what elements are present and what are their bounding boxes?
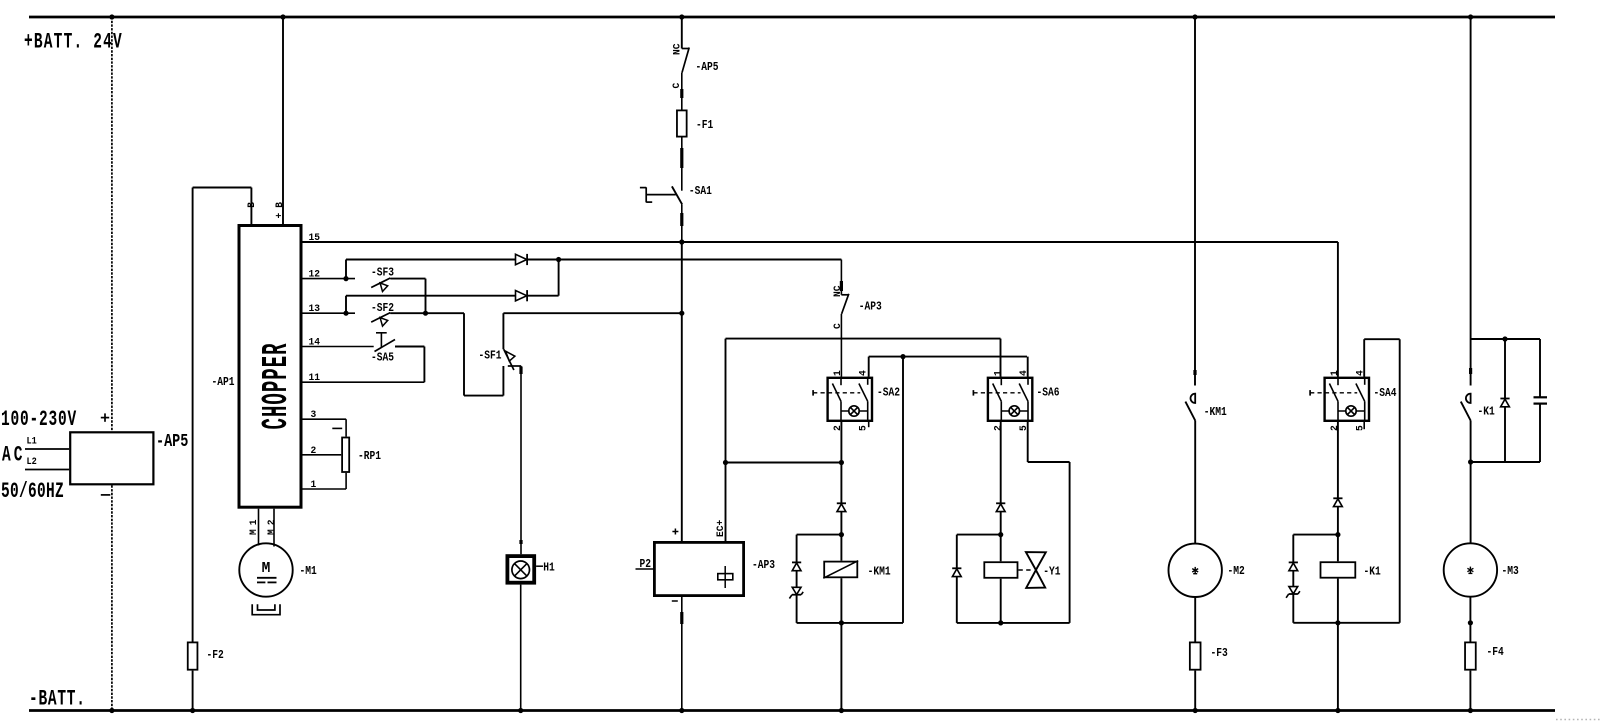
wire KM1 branch to bus bbox=[840, 623, 842, 711]
wire L1 bbox=[25, 448, 69, 450]
switch SF1 blade bbox=[504, 349, 514, 370]
svg-text:-AP3: -AP3 bbox=[752, 559, 775, 572]
label -H1 bbox=[536, 565, 543, 567]
chopper pin 2 wire to RP1 wiper bbox=[303, 454, 342, 456]
wire line A down to AP3 contact bbox=[840, 260, 842, 295]
junction dot rail bbox=[839, 620, 844, 625]
svg-text:-Y1: -Y1 bbox=[1043, 566, 1060, 579]
switch SF2 right terminal bbox=[390, 312, 464, 314]
plus mark at P2 bbox=[672, 531, 678, 533]
svg-text:+B: +B bbox=[274, 197, 285, 219]
wire H1 to bus bbox=[520, 585, 522, 711]
zener K1 suppressor bbox=[1289, 587, 1298, 594]
svg-text:-M1: -M1 bbox=[300, 565, 317, 578]
svg-text:-AP1: -AP1 bbox=[212, 376, 235, 389]
top bus +BATT 24V bbox=[29, 16, 1555, 19]
relay coil K1 bbox=[1321, 562, 1356, 578]
svg-text:-SF1: -SF1 bbox=[479, 350, 502, 363]
junction dot freewheel riser bbox=[900, 354, 905, 359]
svg-text:-F4: -F4 bbox=[1487, 646, 1505, 659]
svg-text:3: 3 bbox=[311, 409, 317, 420]
wire SF1 top to center node bbox=[503, 312, 681, 314]
junction dot EC+/aux wire bbox=[723, 460, 728, 465]
junction dot bbox=[109, 14, 114, 19]
switch SF3 blade bbox=[371, 278, 390, 288]
junction dot bbox=[109, 708, 114, 713]
switch SA2 pole 4-5 bbox=[867, 377, 869, 385]
junction dot pin12 bbox=[343, 276, 348, 281]
junction dot Y1 branch bbox=[998, 532, 1003, 537]
svg-text:2: 2 bbox=[992, 425, 1003, 431]
snubber diode branch bbox=[1504, 339, 1506, 399]
suppressor branch wire K1 bbox=[1293, 534, 1338, 536]
contact K1 (NO) bbox=[1466, 394, 1471, 403]
svg-text:M: M bbox=[262, 561, 271, 577]
Y1 rail bbox=[957, 622, 1070, 624]
page corner dotted mark bbox=[1556, 719, 1600, 721]
riser KM1 rail to pin4 wire bbox=[902, 357, 904, 623]
wire SA2 pin2 down bbox=[840, 422, 842, 503]
fuse F2 bbox=[188, 642, 198, 669]
svg-text:-SA5: -SA5 bbox=[371, 352, 394, 365]
wire F2 to bus bbox=[192, 671, 194, 711]
svg-text:-AP5: -AP5 bbox=[156, 431, 188, 451]
diode KM1 suppressor bbox=[792, 561, 801, 563]
junction dot on SA2 pin2 wire bbox=[839, 460, 844, 465]
switch SA4 pole 1-2 bbox=[1337, 377, 1339, 386]
svg-text:L1: L1 bbox=[27, 435, 38, 447]
chassis ground below M1 bbox=[252, 604, 280, 614]
junction dot pin13 bbox=[343, 311, 348, 316]
snubber bottom rail bbox=[1471, 461, 1540, 463]
chopper pin 15 wire bbox=[303, 241, 1338, 243]
svg-text:-KM1: -KM1 bbox=[868, 566, 891, 579]
svg-text:-SA6: -SA6 bbox=[1037, 387, 1060, 400]
svg-text:-M3: -M3 bbox=[1502, 565, 1519, 578]
svg-text:NC: NC bbox=[832, 285, 843, 297]
junction dot pin15/center bbox=[679, 239, 684, 244]
wire M3 branch from bus bbox=[1470, 17, 1472, 386]
wire battery - dashed below AP5 bbox=[111, 485, 113, 710]
svg-text:-M2: -M2 bbox=[1228, 565, 1245, 578]
potentiometer RP1 bbox=[342, 438, 349, 473]
riser pin13 to diode line B bbox=[345, 296, 347, 314]
junction dot KM1 branch bbox=[839, 532, 844, 537]
svg-text:+BATT. 24V: +BATT. 24V bbox=[24, 29, 123, 55]
svg-text:-AP3: -AP3 bbox=[859, 301, 882, 314]
motor M1 circle bbox=[239, 543, 292, 596]
wire F3 to bus bbox=[1194, 671, 1196, 711]
svg-text:1: 1 bbox=[311, 479, 317, 490]
switch SA4 box bbox=[1325, 378, 1369, 421]
fuse F3 bbox=[1190, 642, 1201, 669]
switch SA6 actuator T link bbox=[972, 390, 974, 396]
chopper pin 12 wire bbox=[303, 278, 356, 280]
svg-text:1: 1 bbox=[992, 370, 1003, 376]
junction dot bbox=[280, 14, 285, 19]
switch SF2 blade bbox=[371, 313, 390, 323]
riser line B to line A bbox=[558, 260, 560, 296]
wire AP3 contact to SA2 pin1 bbox=[840, 314, 842, 377]
switch SA6 box bbox=[988, 378, 1032, 421]
switch SA2 lamp bbox=[849, 406, 859, 416]
svg-text:-K1: -K1 bbox=[1478, 406, 1495, 419]
switch SA5 right terminal to pin 11 bbox=[395, 346, 424, 348]
svg-text:2: 2 bbox=[311, 445, 317, 456]
wire U-loop to SF1 lower terminal bbox=[463, 313, 465, 395]
diode above Y1 coil bbox=[996, 502, 1005, 504]
minus mark near RP1 bbox=[332, 427, 342, 429]
snubber top rail bbox=[1471, 338, 1540, 340]
svg-text:-SA1: -SA1 bbox=[689, 185, 712, 198]
svg-text:-BATT.: -BATT. bbox=[29, 686, 86, 712]
motor M1 DC mark bbox=[257, 577, 277, 579]
lamp H1 box bbox=[507, 556, 534, 583]
wire to fuse F1 with cable dash bbox=[681, 73, 683, 110]
wire K1 branch to bus bbox=[1337, 623, 1339, 711]
minus mark below P2 bbox=[672, 600, 678, 602]
switch SF1 lower bar bbox=[508, 365, 521, 367]
svg-text:-F3: -F3 bbox=[1211, 647, 1228, 660]
svg-text:1: 1 bbox=[1329, 370, 1340, 376]
junction dot K1 rail bbox=[1335, 620, 1340, 625]
switch SA2 actuator T link bbox=[812, 390, 814, 396]
junction dot Y1 rail bbox=[998, 620, 1003, 625]
suppressor branch wire bbox=[797, 534, 842, 536]
charger AP5 box bbox=[70, 432, 153, 484]
wire K1 contact to M3 bbox=[1470, 421, 1472, 544]
wire battery + dashed drop at x=112 bbox=[111, 17, 113, 431]
switch SA2 pole 1-2 bbox=[840, 377, 842, 386]
svg-text:-SA4: -SA4 bbox=[1374, 387, 1398, 400]
wire SA6 pin5 path bbox=[1027, 422, 1029, 462]
aux wire EC+ to KM1 branch bbox=[726, 462, 842, 464]
plus mark bbox=[101, 417, 109, 419]
svg-text:L2: L2 bbox=[27, 455, 38, 467]
chopper pin 14 wire bbox=[303, 346, 374, 348]
wire SA1 to line15 node bbox=[681, 204, 683, 242]
svg-text:CHOPPER: CHOPPER bbox=[256, 342, 297, 429]
chopper pin 1 wire bbox=[303, 488, 347, 490]
wire EC+ horizontal to SA6 bbox=[726, 338, 1001, 340]
svg-text:H1: H1 bbox=[543, 562, 555, 575]
svg-text:M1: M1 bbox=[248, 515, 259, 535]
center wire from bus to AP5 contact bbox=[681, 17, 683, 49]
svg-text:M2: M2 bbox=[266, 515, 277, 535]
fuse F1 bbox=[677, 110, 687, 136]
switch SF1 upper terminal bbox=[502, 313, 504, 349]
diode above K1 coil bbox=[1333, 497, 1342, 499]
chopper AP1 box bbox=[239, 226, 301, 508]
wire -B from chopper to F2 bbox=[250, 188, 252, 225]
snubber capacitor branch bbox=[1539, 339, 1541, 397]
chopper pin 3 wire bbox=[303, 418, 347, 420]
aux contact of AP3 charger (NC) bbox=[841, 294, 848, 296]
switch SA4 pole 4-5 bbox=[1364, 377, 1366, 385]
switch SA1 blade bbox=[672, 186, 682, 204]
wire EC+ riser bbox=[725, 339, 727, 541]
chopper M1 pin wire bbox=[258, 509, 260, 546]
wire SA4 pin2 down bbox=[1337, 422, 1339, 498]
wire L2 bbox=[25, 469, 69, 471]
wire KM1 coil to rail bbox=[840, 578, 842, 623]
diode above KM1 coil bbox=[837, 502, 846, 504]
junction dot node P2+ bbox=[679, 311, 684, 316]
diode Y1 suppressor bbox=[952, 567, 961, 569]
power supply P2/AP3 box bbox=[654, 542, 743, 595]
suppressor branch wire Y1 bbox=[957, 534, 1001, 536]
bottom bus -BATT bbox=[29, 709, 1555, 712]
KM1 freewheel rail bbox=[797, 622, 903, 624]
internal symbol in AP3 box bbox=[724, 566, 726, 588]
switch SA6 lamp bbox=[1009, 406, 1019, 416]
motor M2 bbox=[1169, 544, 1222, 597]
wire Y1 coil to rail bbox=[1000, 579, 1002, 623]
svg-text:NC: NC bbox=[671, 43, 682, 55]
switch SA5 manual T actuator bbox=[376, 332, 387, 334]
svg-text:-AP5: -AP5 bbox=[696, 61, 719, 74]
junction dot line A bbox=[556, 257, 561, 262]
junction dot snubber bottom bbox=[1468, 459, 1473, 464]
switch SA5 blade bbox=[375, 340, 396, 352]
minus mark bbox=[101, 494, 111, 496]
lamp H1 symbol bbox=[512, 561, 530, 579]
wire SF1 to lamp H1 bbox=[520, 366, 522, 554]
wire KM1 contact to M2 bbox=[1194, 421, 1196, 544]
riser pin12 to diode line A bbox=[345, 260, 347, 279]
svg-text:-KM1: -KM1 bbox=[1204, 406, 1227, 419]
switch SF3 right terminal bbox=[390, 278, 425, 280]
svg-text:12: 12 bbox=[309, 268, 321, 279]
svg-text:1: 1 bbox=[832, 370, 843, 376]
wire SA2 pin5 stub bbox=[868, 422, 870, 427]
chopper pin 11 wire bbox=[303, 381, 425, 383]
junction dot K1 branch bbox=[1335, 532, 1340, 537]
contactor coil KM1 bbox=[824, 562, 857, 578]
svg-text:11: 11 bbox=[309, 372, 321, 383]
svg-text:-SA2: -SA2 bbox=[877, 387, 900, 400]
wire node to P2 + pin bbox=[681, 313, 683, 541]
diode line B bbox=[346, 295, 516, 297]
svg-text:-F1: -F1 bbox=[696, 119, 713, 132]
switch SA6 pole 1-2 bbox=[1000, 377, 1002, 386]
junction dot SF3 drop bbox=[423, 311, 428, 316]
switch SA4 actuator T link bbox=[1309, 390, 1311, 396]
wire P2 - to bus bbox=[681, 597, 683, 711]
chopper M2 pin wire bbox=[273, 509, 275, 547]
switch SA4 lamp bbox=[1346, 406, 1356, 416]
capacitor C1 bbox=[1534, 396, 1548, 398]
solenoid valve symbol Y1 bbox=[1026, 552, 1046, 570]
valve coil Y1 bbox=[984, 562, 1017, 578]
svg-text:AC: AC bbox=[2, 442, 25, 468]
junction dot snubber bbox=[1502, 336, 1507, 341]
wire M3 to fuse F4 bbox=[1469, 597, 1471, 642]
wire K1 coil to rail bbox=[1337, 579, 1339, 623]
junction dot below M3 bbox=[1468, 620, 1473, 625]
junction dot bbox=[190, 708, 195, 713]
svg-text:5: 5 bbox=[858, 425, 869, 431]
K1 rail bbox=[1293, 622, 1399, 624]
wire +B from bus to chopper bbox=[282, 17, 284, 224]
switch SA2 box bbox=[828, 378, 872, 421]
svg-text:EC+: EC+ bbox=[715, 520, 726, 537]
switch SA6 pole 4-5 bbox=[1027, 377, 1029, 385]
svg-text:13: 13 bbox=[309, 303, 321, 314]
wire line15 node to P2+ node bbox=[681, 242, 683, 313]
zener KM1 suppressor bbox=[792, 587, 801, 594]
svg-text:15: 15 bbox=[309, 232, 321, 243]
svg-text:-F2: -F2 bbox=[207, 649, 224, 662]
wire SA4 pin4 loop bbox=[1363, 339, 1365, 376]
fuse F4 bbox=[1465, 642, 1476, 669]
diode K1 suppressor bbox=[1289, 561, 1298, 563]
wire SA6 pin2 down bbox=[1000, 422, 1002, 503]
svg-text:100-230V: 100-230V bbox=[1, 406, 77, 432]
svg-text:C: C bbox=[671, 83, 682, 89]
aux contact of AP5 (NC) bbox=[682, 48, 689, 50]
diode D2 on line B bbox=[516, 291, 527, 301]
contact KM1 (NO) bbox=[1190, 394, 1195, 403]
wire line15 drop to SA4 bbox=[1337, 242, 1339, 377]
wire SA2-SA6 pin4 link bbox=[869, 356, 1027, 358]
wire F4 to bus bbox=[1469, 671, 1471, 711]
svg-text:14: 14 bbox=[309, 336, 321, 347]
svg-text:50/60HZ: 50/60HZ bbox=[1, 478, 64, 504]
wire SA6 pin4 riser bbox=[1027, 357, 1029, 377]
wire SA2 pin4 riser bbox=[868, 357, 870, 377]
wire F1 to SA1 bbox=[681, 138, 683, 191]
svg-text:-RP1: -RP1 bbox=[358, 450, 381, 463]
wire M2 to fuse F3 bbox=[1194, 597, 1196, 642]
chopper pin 13 wire bbox=[303, 312, 356, 314]
motor M3 bbox=[1444, 543, 1497, 596]
svg-text:-K1: -K1 bbox=[1364, 566, 1381, 579]
wire M2 branch from bus bbox=[1194, 17, 1196, 386]
svg-text:-B: -B bbox=[246, 197, 257, 219]
diode D1 on line A bbox=[516, 254, 527, 264]
svg-text:4: 4 bbox=[858, 370, 869, 376]
switch SA1 handle bracket bbox=[640, 187, 646, 189]
wire SA4 pin5 stub bbox=[1363, 422, 1365, 429]
diode line A bbox=[346, 259, 516, 261]
